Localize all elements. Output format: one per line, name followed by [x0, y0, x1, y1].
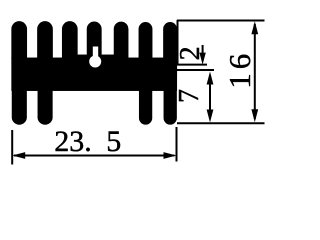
svg-text:7: 7	[174, 89, 205, 103]
screw-channel neck (white slot)	[93, 47, 98, 59]
right end lip	[173, 65, 177, 75]
heatsink profile silhouette	[12, 22, 177, 125]
extension line A (for dim 2)	[177, 64, 207, 66]
arrowhead: dim 7 up	[207, 72, 214, 85]
leg B3	[139, 90, 151, 124]
arrowhead: dim 7 down	[207, 110, 214, 123]
arrowhead: dim 2 down	[199, 53, 205, 65]
floored gap between F4 and F5	[100, 55, 115, 59]
fin F7 (top, rightmost)	[164, 23, 177, 59]
svg-text:2: 2	[175, 46, 206, 60]
extension line B (base top, for dim 7)	[177, 69, 214, 71]
arrowhead: dim 23.5 right	[164, 152, 177, 159]
fin F3	[62, 22, 77, 58]
dim line 2 (vertical leader)	[202, 45, 204, 58]
svg-text:23.5: 23.5	[54, 125, 121, 158]
fin F4	[87, 22, 101, 58]
arrowhead: dim 16 down	[251, 109, 258, 122]
top extension line	[177, 20, 265, 22]
arrowhead: dim 23.5 left	[12, 152, 25, 159]
leg B2	[38, 90, 52, 124]
fin F2	[38, 22, 53, 58]
fin F6	[139, 23, 152, 59]
fin F5	[114, 22, 128, 58]
arrowhead: dim 16 up	[251, 21, 258, 34]
dim line 16	[254, 24, 256, 119]
svg-text:16: 16	[222, 50, 257, 89]
ext line 23.5 left	[11, 130, 13, 165]
dimension linework	[12, 20, 264, 165]
base plate	[12, 58, 177, 91]
fin F1 (top, leftmost)	[12, 22, 27, 58]
ext line 23.5 right	[176, 127, 178, 162]
leg B1 (bottom, leftmost)	[12, 90, 26, 124]
dim line 23.5	[14, 155, 175, 157]
floored gap between F3 and F4	[76, 55, 88, 59]
right vertical extension line	[177, 20, 179, 64]
bottom extension line	[177, 122, 265, 124]
leg B4 (bottom, rightmost)	[164, 90, 176, 124]
dim line 7	[209, 76, 211, 118]
screw-channel hole (white circle)	[89, 56, 101, 68]
